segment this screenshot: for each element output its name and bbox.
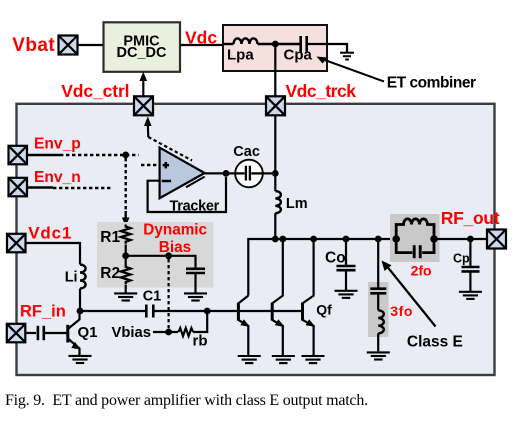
node Lm at rail <box>272 236 279 243</box>
svg-text:ET combiner: ET combiner <box>387 74 476 91</box>
op-amp Tracker <box>160 148 205 199</box>
3fo shaded box <box>368 282 389 337</box>
port Env_p <box>9 146 28 165</box>
svg-text:R2: R2 <box>100 265 120 282</box>
inductor (3fo) <box>378 310 384 333</box>
capacitor Cpa <box>301 36 307 52</box>
svg-text:R1: R1 <box>100 229 120 246</box>
port Vdc1 <box>7 234 26 253</box>
wire 3fo <box>377 239 379 288</box>
ET combiner box <box>223 25 327 71</box>
port RF_out <box>487 230 506 249</box>
node: junction in ET combiner <box>272 41 279 48</box>
wire feedback loop <box>148 177 226 212</box>
wire dashed to + input <box>141 164 160 166</box>
capacitor Cac (circle) <box>235 160 263 188</box>
wire tracker output <box>205 172 236 174</box>
node rb/base line <box>204 308 211 315</box>
svg-text:Cpa: Cpa <box>284 47 313 64</box>
wire tracker to Vdc_ctrl: arrow + dashed diagonal <box>144 117 152 127</box>
wire tank to RF_out port <box>434 238 487 240</box>
node Vbias <box>165 329 172 336</box>
transistor Qf-1 <box>238 296 248 356</box>
svg-text:Vbat: Vbat <box>12 35 55 56</box>
svg-text:Class E: Class E <box>407 334 463 351</box>
dynamic bias shaded box <box>97 222 214 288</box>
wire dashed bias tap down to Vbias <box>168 259 170 330</box>
wire cap to Q1 base <box>45 332 68 334</box>
node at Lm line <box>272 170 279 177</box>
svg-text:Vbias: Vbias <box>112 325 151 341</box>
ground Qf-2 <box>272 356 295 363</box>
ground under Cp <box>459 292 482 299</box>
wire Cpa to ground <box>308 44 347 52</box>
wire Vdc_ctrl up to PMIC with arrow <box>142 79 144 96</box>
ground (right of ET combiner) <box>340 53 354 60</box>
inductor Lpa <box>223 38 300 44</box>
node tracker output <box>223 170 230 177</box>
svg-text:Co: Co <box>325 250 346 267</box>
svg-text:Fig. 9. ET and power amplifie: Fig. 9. ET and power amplifier with clas… <box>5 392 368 409</box>
port Vbat <box>59 36 78 55</box>
wire R2 to ground <box>125 285 127 293</box>
svg-text:Vdc1: Vdc1 <box>28 224 72 243</box>
svg-text:3fo: 3fo <box>390 303 413 319</box>
ground Qf-3 <box>302 356 325 363</box>
svg-text:Q1: Q1 <box>78 324 98 341</box>
svg-text:2fo: 2fo <box>411 263 432 279</box>
transistor Q1 <box>68 311 80 355</box>
svg-text:Qf: Qf <box>316 302 332 318</box>
svg-text:Cp: Cp <box>453 251 470 265</box>
svg-text:Li: Li <box>65 270 78 286</box>
main amplifier box <box>17 104 495 375</box>
node R1/R2 <box>122 252 129 259</box>
capacitor (RF_in series) <box>38 326 44 340</box>
wire dashed down to R1 with arrow <box>124 158 126 211</box>
svg-text:Env_p: Env_p <box>34 136 81 153</box>
node Qf-2 collector <box>279 236 286 243</box>
resistor R1 <box>121 225 131 244</box>
wire rb up to base line <box>193 311 207 332</box>
collector rail <box>248 239 396 296</box>
wire Env_p (solid then dashed) <box>27 154 60 156</box>
capacitor (dynamic bias) <box>186 269 205 273</box>
resistor R2 <box>121 265 131 284</box>
2fo shaded box <box>390 214 440 262</box>
ground Q1 <box>69 356 92 363</box>
svg-text:Bias: Bias <box>159 239 191 256</box>
svg-text:Lm: Lm <box>286 196 308 212</box>
node Q1 collector <box>77 308 84 315</box>
port RF_in <box>7 324 26 343</box>
svg-text:Dynamic: Dynamic <box>143 221 207 238</box>
node Co tap <box>343 236 350 243</box>
svg-text:Env_n: Env_n <box>34 169 81 186</box>
resistor rb <box>179 328 194 336</box>
port Vdc_trck <box>266 96 285 115</box>
wire bias node right <box>126 256 196 268</box>
wire Vdc_trck down + inductor Lm <box>274 115 276 191</box>
capacitor Co <box>345 239 347 266</box>
2fo tank: right node <box>430 235 438 243</box>
ground under 3fo <box>367 352 390 359</box>
wire RF_in to cap <box>25 332 36 334</box>
wire ET combiner down to Vdc_trck port <box>274 44 276 96</box>
node Cp tap <box>467 236 474 243</box>
svg-text:Lpa: Lpa <box>227 47 254 64</box>
wire R1 to R2 <box>125 245 127 266</box>
svg-text:RF_in: RF_in <box>20 303 66 321</box>
inductor Li <box>80 265 86 289</box>
ground under Co <box>335 291 358 298</box>
svg-text:C1: C1 <box>143 289 162 305</box>
svg-text:Vdc_trck: Vdc_trck <box>286 81 357 101</box>
wire Li down to collector node <box>79 289 81 312</box>
wire Cac to Vdc_trck line <box>263 172 276 174</box>
2fo tank loop with inductor and capacitor <box>396 219 434 239</box>
port Env_n <box>9 178 28 197</box>
wire Vbias to rb <box>153 331 178 333</box>
port Vdc_ctrl <box>134 96 153 115</box>
capacitor C1 <box>146 305 153 318</box>
wire C1 to bases <box>155 310 303 312</box>
svg-text:DC_DC: DC_DC <box>117 45 167 61</box>
svg-text:RF_out: RF_out <box>441 208 500 228</box>
transistor Qf-3 <box>303 239 314 355</box>
node Qf-3 collector <box>310 236 317 243</box>
transistor Qf-2 <box>272 239 283 355</box>
2fo tank: left node <box>392 235 400 243</box>
node 3fo tap <box>375 236 382 243</box>
capacitor (3fo) <box>370 289 386 294</box>
svg-text:Cac: Cac <box>233 144 260 160</box>
wire collector node to C1 <box>80 310 146 312</box>
node bias tap <box>165 252 172 259</box>
node Env_p junction <box>122 152 129 159</box>
ground Qf-1 <box>238 356 261 363</box>
wire Vdc1 to Li <box>26 243 81 265</box>
capacitor Cp <box>469 239 471 267</box>
ground under bias cap <box>184 293 207 300</box>
wire Env_n (solid then dashed) <box>27 186 53 188</box>
wire Vbat to PMIC <box>77 44 104 46</box>
svg-text:Vdc_ctrl: Vdc_ctrl <box>61 81 129 101</box>
ground under R2 <box>114 293 137 300</box>
wire PMIC to ET combiner <box>180 44 224 46</box>
PMIC DC_DC block U-PMIC <box>104 22 181 72</box>
svg-text:rb: rb <box>193 333 208 350</box>
